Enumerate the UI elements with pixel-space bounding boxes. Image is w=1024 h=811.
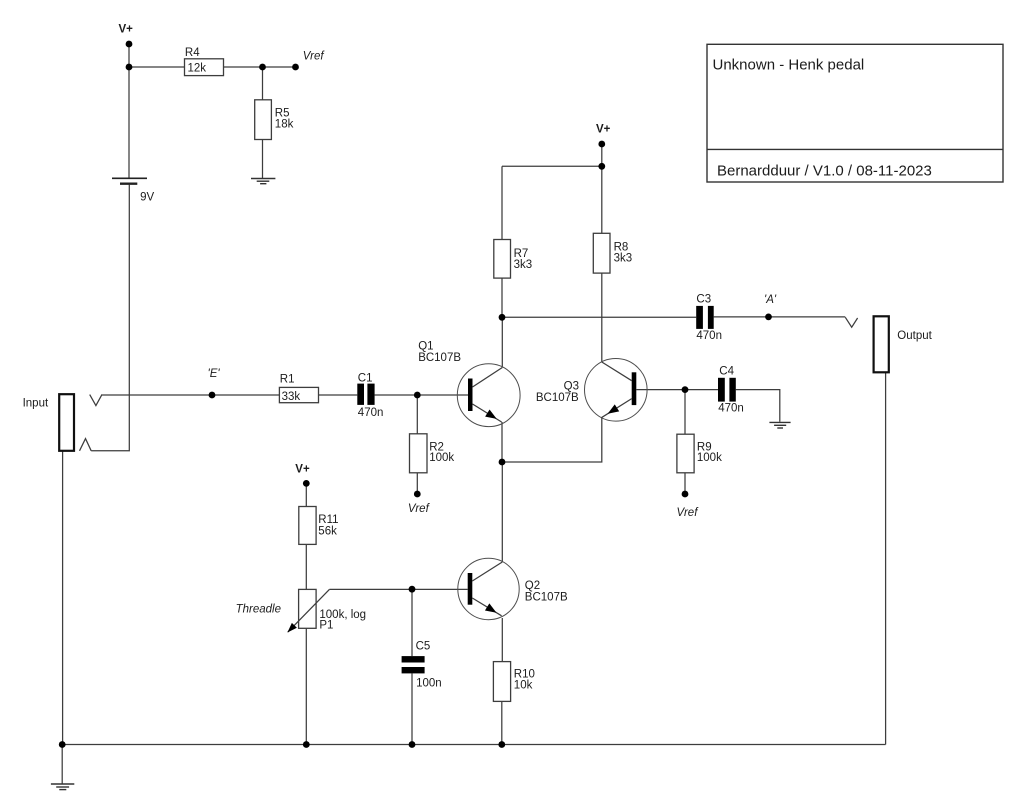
svg-text:Vref: Vref (408, 503, 431, 515)
svg-text:R1: R1 (280, 374, 295, 386)
svg-text:C4: C4 (719, 366, 734, 378)
svg-text:470n: 470n (696, 330, 722, 342)
svg-text:100k: 100k (429, 452, 454, 464)
svg-text:Q3: Q3 (564, 381, 579, 393)
svg-text:Output: Output (897, 330, 932, 342)
svg-text:18k: 18k (275, 118, 294, 130)
svg-text:BC107B: BC107B (418, 352, 461, 364)
svg-text:R4: R4 (185, 47, 200, 59)
svg-text:33k: 33k (282, 391, 301, 403)
svg-text:Vref: Vref (677, 507, 700, 519)
svg-text:100n: 100n (416, 678, 442, 690)
svg-text:56k: 56k (318, 526, 337, 538)
svg-text:10k: 10k (514, 680, 533, 692)
svg-text:Q1: Q1 (418, 341, 433, 353)
svg-text:3k3: 3k3 (514, 259, 533, 271)
svg-text:Unknown - Henk pedal: Unknown - Henk pedal (713, 57, 865, 74)
svg-text:R10: R10 (514, 668, 535, 680)
svg-text:R8: R8 (614, 242, 629, 254)
svg-text:Q2: Q2 (525, 580, 540, 592)
svg-text:BC107B: BC107B (525, 591, 568, 603)
svg-text:470n: 470n (718, 402, 744, 414)
svg-text:C1: C1 (358, 372, 373, 384)
svg-text:V+: V+ (295, 463, 310, 475)
svg-text:Bernardduur / V1.0 / 08-11-202: Bernardduur / V1.0 / 08-11-2023 (717, 162, 932, 179)
svg-text:R11: R11 (318, 514, 338, 526)
svg-text:P1: P1 (319, 620, 333, 632)
svg-text:BC107B: BC107B (536, 392, 579, 404)
svg-text:9V: 9V (140, 191, 154, 203)
svg-text:C3: C3 (696, 294, 711, 306)
svg-text:470n: 470n (358, 407, 384, 419)
svg-text:Threadle: Threadle (236, 603, 281, 615)
svg-text:100k: 100k (697, 452, 722, 464)
svg-text:Input: Input (23, 397, 49, 409)
svg-text:12k: 12k (188, 62, 207, 74)
svg-text:V+: V+ (119, 23, 134, 35)
svg-text:V+: V+ (596, 123, 611, 135)
svg-text:'A': 'A' (764, 294, 777, 306)
svg-text:3k3: 3k3 (614, 253, 633, 265)
svg-text:C5: C5 (416, 640, 431, 652)
svg-text:'E': 'E' (208, 368, 221, 380)
svg-text:Vref: Vref (303, 51, 326, 63)
